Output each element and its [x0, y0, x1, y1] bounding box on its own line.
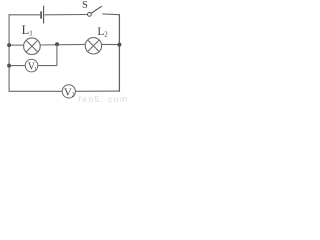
wire: L2 to right	[102, 43, 120, 45]
wire: riser V1 to lamp row	[56, 44, 58, 65]
wire: lamp row, left to L1	[9, 44, 23, 46]
voltmeter V1 circle	[25, 59, 38, 72]
wire: between lamps	[40, 43, 85, 46]
battery negative plate (short thick)	[40, 11, 42, 18]
wire: right vertical	[118, 14, 120, 92]
svg-text:2: 2	[104, 31, 108, 39]
wire: V1 branch right	[38, 65, 57, 67]
svg-text:1: 1	[29, 30, 33, 38]
svg-text:1: 1	[34, 66, 37, 72]
wire: top, battery to switch	[45, 14, 88, 16]
junction dot left of L1	[7, 43, 11, 47]
switch S lever	[91, 6, 102, 13]
wire: bottom right of V2	[75, 90, 120, 92]
wire: top, battery left segment	[9, 14, 40, 16]
battery positive plate (long thin)	[43, 6, 45, 24]
switch S pivot circle	[88, 13, 92, 17]
junction dot right lamp row	[117, 43, 121, 47]
wire: top, switch to right corner	[102, 13, 120, 16]
svg-text:S: S	[82, 0, 88, 11]
wire: bottom left of V2	[9, 90, 63, 92]
lamp L1 cross	[26, 40, 38, 52]
junction dot between lamps	[55, 42, 59, 46]
lamp L2 circle	[85, 38, 101, 54]
svg-text:fen5. com: fen5. com	[79, 94, 129, 104]
wire: V1 branch left	[9, 65, 25, 67]
lamp L2 cross	[88, 40, 99, 51]
wire: left vertical	[8, 14, 10, 92]
svg-text:L: L	[22, 23, 30, 37]
svg-text:2: 2	[72, 92, 75, 98]
lamp L1 circle	[24, 38, 41, 55]
junction dot left V1 branch	[7, 64, 11, 68]
voltmeter V2 circle	[62, 85, 75, 98]
